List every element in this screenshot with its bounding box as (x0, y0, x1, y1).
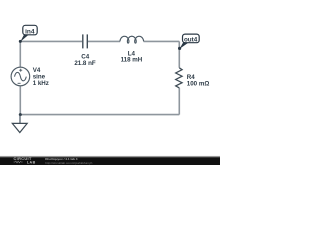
node label out4 box (183, 34, 200, 43)
node label in4 box (23, 25, 37, 35)
voltage source sine wave (15, 72, 27, 80)
svg-text:out4: out4 (184, 36, 198, 43)
wire left branch upper (19, 41, 21, 67)
ground stem (19, 115, 21, 124)
svg-text:http://circuitlab.com/c/jcahkk: http://circuitlab.com/c/jcahkkfumyh (45, 161, 92, 165)
node dot bottom junction (19, 113, 22, 116)
voltage source plus sign (19, 69, 22, 72)
svg-text:in4: in4 (25, 29, 35, 36)
inductor L4 (120, 36, 144, 43)
ground triangle (12, 123, 27, 132)
wire bottom (20, 114, 179, 116)
voltage source V4 circle (11, 67, 30, 86)
wire left branch lower (19, 86, 21, 115)
wire right branch upper (178, 41, 180, 67)
wire capacitor to inductor (88, 40, 120, 42)
svg-text:LAB: LAB (27, 160, 36, 164)
node dot top-left (19, 40, 22, 43)
svg-text:21.8 nF: 21.8 nF (74, 60, 96, 67)
node label out4 tail (180, 42, 189, 49)
wire inductor to top-right corner (144, 40, 180, 42)
watermark logo zigzag (14, 161, 23, 163)
voltage source minus sign (18, 82, 21, 84)
node dot out4 attach (178, 47, 181, 50)
capacitor C4 (83, 34, 88, 48)
wire top-left to capacitor (20, 40, 82, 42)
resistor R4 (176, 68, 182, 88)
node label in4 tail (20, 34, 29, 42)
wire right branch lower (178, 88, 180, 115)
svg-text:100 mΩ: 100 mΩ (187, 80, 210, 87)
svg-text:1 kHz: 1 kHz (33, 80, 49, 87)
svg-text:118 mH: 118 mH (121, 57, 143, 64)
